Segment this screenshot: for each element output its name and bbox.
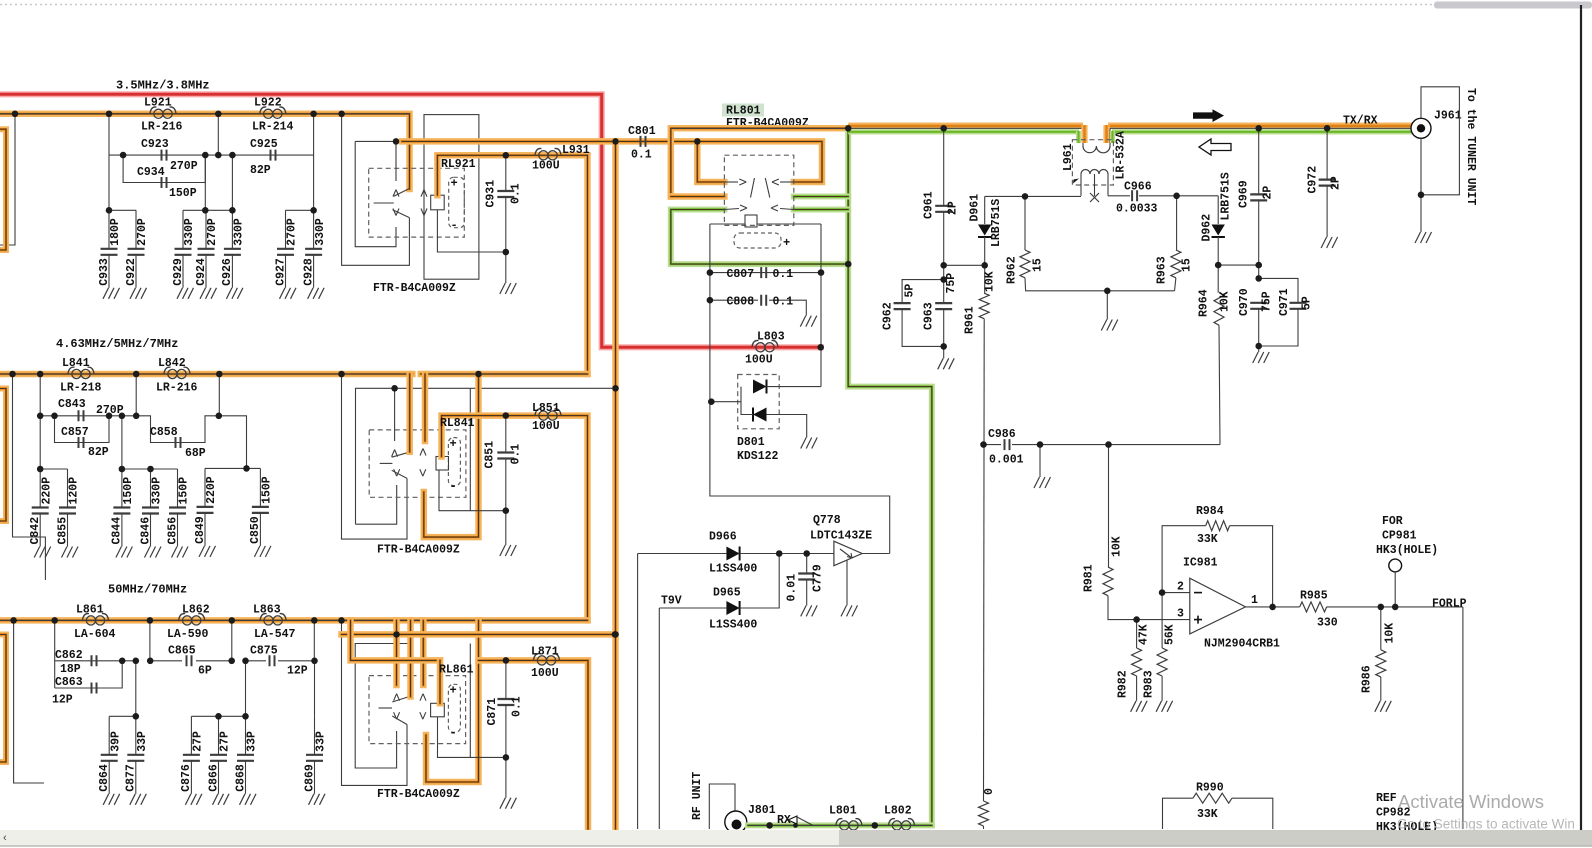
svg-text:0.001: 0.001	[989, 454, 1024, 467]
wire op-amp output	[1246, 606, 1300, 608]
svg-text:C969: C969	[1238, 180, 1251, 208]
svg-text:C986: C986	[988, 428, 1016, 441]
svg-text:C856: C856	[166, 517, 179, 545]
svg-text:FOR: FOR	[1382, 515, 1403, 528]
svg-text:HK3(HOLE): HK3(HOLE)	[1376, 544, 1438, 557]
svg-text:C962: C962	[882, 302, 895, 330]
svg-text:R964: R964	[1198, 289, 1211, 317]
relay RL841 coil square	[436, 457, 449, 471]
svg-text:RL861: RL861	[439, 664, 474, 677]
relay RL801 levers	[751, 178, 755, 198]
svg-text:0.1: 0.1	[773, 268, 794, 281]
capacitor C877 33P	[135, 716, 137, 755]
svg-text:D801: D801	[737, 436, 765, 449]
svg-text:J961: J961	[1434, 110, 1462, 123]
wire RL801 orange loop	[671, 128, 846, 196]
svg-text:C862: C862	[55, 649, 83, 662]
wire J801 bracket	[709, 784, 735, 829]
wire TX/RX pair orange+green left segment	[848, 122, 1083, 128]
svg-text:15: 15	[1032, 258, 1045, 272]
svg-text:FTR-B4CA009Z: FTR-B4CA009Z	[377, 544, 460, 557]
relay RL861 outer box	[342, 620, 408, 785]
svg-text:KDS122: KDS122	[737, 450, 779, 463]
svg-text:L801: L801	[829, 805, 857, 818]
transformer L961 phasing arrow	[1073, 179, 1079, 184]
svg-text:12P: 12P	[287, 665, 308, 678]
svg-text:0: 0	[983, 788, 996, 795]
wire TX/RX pair orange+green right segment to J961	[1108, 122, 1421, 128]
wire D962 to C969 bottom	[1218, 264, 1259, 266]
row3 left edge stubs	[14, 620, 44, 783]
svg-text:L1SS400: L1SS400	[709, 619, 757, 632]
wire row2 feeds	[109, 416, 247, 469]
svg-text:0.0033: 0.0033	[1116, 203, 1158, 216]
wire C925 net	[205, 154, 313, 156]
svg-text:J801: J801	[748, 804, 776, 817]
svg-text:10K: 10K	[1111, 536, 1124, 557]
inductor L931 100U	[535, 148, 561, 159]
svg-text:C928: C928	[302, 258, 315, 286]
connector J961 to tuner unit	[1411, 118, 1431, 138]
relay RL921 contact arrows	[395, 141, 397, 181]
svg-text:L1SS400: L1SS400	[709, 563, 757, 576]
svg-text:10K: 10K	[1384, 623, 1397, 644]
svg-text:100U: 100U	[532, 160, 560, 173]
svg-text:+: +	[451, 177, 458, 191]
svg-text:L961: L961	[1062, 143, 1075, 171]
svg-text:50MHz/70MHz: 50MHz/70MHz	[108, 583, 187, 597]
capacitor C865 6P	[187, 655, 192, 666]
svg-text:NJM2904CRB1: NJM2904CRB1	[1204, 638, 1280, 651]
svg-text:LA-590: LA-590	[167, 628, 209, 641]
inductor L861 LA-604	[83, 614, 109, 625]
svg-text:LR-532A: LR-532A	[1115, 131, 1128, 179]
capacitor C868 33P	[245, 716, 247, 755]
capacitor C871 0.1	[505, 660, 507, 699]
svg-text:56K: 56K	[1164, 624, 1177, 645]
svg-text:D961: D961	[969, 194, 982, 222]
relay RL841 coil dashed inner	[448, 438, 460, 486]
switch RX arrow	[788, 816, 797, 824]
wire green RX line to J801	[748, 822, 932, 828]
svg-text:82P: 82P	[88, 446, 109, 459]
svg-text:0.01: 0.01	[786, 574, 799, 602]
terminal CP981 FOR	[1389, 559, 1402, 572]
capacitor C851 0.1	[505, 416, 507, 453]
svg-text:LA-547: LA-547	[254, 628, 296, 641]
resistor R963 15	[1176, 196, 1178, 250]
wire FORLP down	[1462, 607, 1464, 829]
relay RL861 pole and levers	[379, 707, 393, 709]
svg-text:C934: C934	[137, 166, 165, 179]
relay RL921 outer box	[342, 114, 410, 265]
wire cap cluster bars row3	[109, 715, 136, 717]
relay RL861 coil dashed inner	[448, 684, 460, 732]
svg-text:18P: 18P	[60, 663, 81, 676]
svg-text:C850: C850	[249, 516, 262, 544]
svg-text:C923: C923	[141, 138, 169, 151]
label RL801 highlighted	[722, 104, 764, 117]
wire Q778 connections	[862, 553, 890, 555]
capacitor C922 270P	[135, 210, 137, 249]
wire RL861 drops orange	[393, 620, 400, 685]
svg-text:C961: C961	[923, 191, 936, 219]
row2 left edge stubs	[13, 374, 46, 580]
svg-text:270P: 270P	[206, 218, 219, 246]
svg-text:27P: 27P	[192, 731, 205, 752]
resistor R985 330	[1300, 602, 1327, 612]
svg-text:L921: L921	[144, 97, 172, 110]
capacitor C961 2P	[943, 128, 945, 206]
svg-text:C922: C922	[125, 258, 138, 286]
inductor L863 LA-547	[260, 614, 286, 625]
capacitor C779 0.01	[806, 554, 808, 574]
capacitor C926 330P	[231, 210, 233, 249]
wire J961 bracket	[1421, 87, 1459, 195]
svg-text:C931: C931	[485, 180, 498, 208]
svg-text:C801: C801	[628, 125, 656, 138]
resistors R982 47K R983 56K	[1132, 648, 1142, 676]
resistor R962 15	[1024, 196, 1026, 250]
capacitor C972 2P	[1326, 128, 1328, 179]
svg-text:330P: 330P	[233, 218, 246, 246]
svg-text:LDTC143ZE: LDTC143ZE	[810, 530, 872, 543]
svg-text:C963: C963	[923, 302, 936, 330]
capacitor C869 33P	[314, 716, 316, 755]
wire transformer dip stubs	[1081, 125, 1087, 143]
svg-text:D966: D966	[709, 531, 737, 544]
resistor R990 33K	[1163, 798, 1193, 829]
svg-text:C864: C864	[98, 764, 111, 792]
wire RL841 row elbows orange	[406, 374, 413, 452]
capacitor C866 27P	[218, 716, 220, 755]
svg-text:270P: 270P	[136, 218, 149, 246]
capacitor C855 120P	[67, 469, 69, 508]
junction dots	[12, 111, 19, 118]
svg-text:R982: R982	[1117, 670, 1130, 698]
diode D961 LRB751S	[984, 196, 986, 224]
capacitor C843 270P	[79, 410, 84, 421]
svg-text:2P: 2P	[1262, 186, 1275, 200]
top-right scrollbar stub	[1434, 2, 1592, 9]
svg-text:75P: 75P	[945, 273, 958, 294]
svg-text:150P: 150P	[169, 187, 197, 200]
top dotted border	[0, 4, 1592, 6]
svg-text:C808: C808	[727, 296, 755, 309]
capacitor C876 27P	[190, 716, 192, 755]
svg-text:5P: 5P	[1301, 296, 1314, 310]
svg-text:LR-216: LR-216	[156, 382, 198, 395]
capacitor C924 270P	[205, 210, 207, 249]
inductor L871 100U	[534, 654, 560, 665]
capacitor C849 220P	[204, 468, 206, 507]
svg-text:R961: R961	[964, 306, 977, 334]
svg-text:L862: L862	[182, 604, 210, 617]
relay RL801 coil square	[745, 215, 757, 227]
svg-text:C851: C851	[484, 441, 497, 469]
svg-text:R986: R986	[1361, 665, 1374, 693]
transformer L961 LR-532A dashed box	[1072, 140, 1113, 185]
svg-text:L841: L841	[62, 357, 90, 370]
wire secondary net y196	[985, 195, 1081, 197]
svg-text:RF UNIT: RF UNIT	[691, 772, 704, 820]
svg-text:330: 330	[1317, 617, 1338, 630]
capacitor C846 330P	[150, 469, 152, 508]
capacitor C925 82P	[271, 150, 276, 161]
svg-text:270P: 270P	[286, 218, 299, 246]
svg-text:33P: 33P	[315, 731, 328, 752]
wire cap cluster bars row2	[40, 468, 67, 470]
svg-text:15: 15	[1181, 258, 1194, 272]
capacitor C863 12P loop	[55, 661, 123, 688]
svg-text:C865: C865	[168, 645, 196, 658]
relay RL921 tall rect	[424, 115, 479, 280]
svg-text:C868: C868	[234, 764, 247, 792]
wire RL841 coil bottom to C851	[439, 470, 506, 511]
svg-text:L861: L861	[76, 604, 104, 617]
wire RL861 relay top line orange	[342, 631, 616, 638]
svg-text:C807: C807	[727, 268, 755, 281]
svg-text:R984: R984	[1196, 505, 1224, 518]
svg-text:C875: C875	[250, 645, 278, 658]
svg-text:100U: 100U	[532, 420, 560, 433]
transformer L961 center tap with X	[1094, 174, 1096, 196]
inductor L803 100U on red wire	[752, 340, 778, 351]
svg-text:-: -	[450, 480, 457, 494]
svg-text:C843: C843	[58, 398, 86, 411]
capacitor C934 150P loop	[123, 155, 205, 182]
arrow RX direction outline	[1199, 139, 1231, 155]
svg-text:C842: C842	[29, 517, 42, 545]
svg-text:75P: 75P	[1261, 291, 1274, 312]
relay RL861 inner box and pole line	[355, 644, 412, 769]
svg-text:Q778: Q778	[813, 514, 841, 527]
capacitor C986 0.001	[984, 444, 1002, 446]
svg-text:+: +	[783, 236, 790, 250]
inductor L862 LA-590	[179, 614, 205, 625]
resistor R961 10K	[984, 265, 986, 293]
svg-text:12P: 12P	[52, 694, 73, 707]
relay RL921 coil dashed inner	[449, 177, 465, 227]
svg-text:C855: C855	[56, 517, 69, 545]
svg-text:To the TUNER UNIT: To the TUNER UNIT	[1464, 88, 1477, 205]
svg-text:+: +	[450, 437, 457, 451]
svg-text:REF: REF	[1376, 792, 1397, 805]
svg-text:R963: R963	[1156, 256, 1169, 284]
svg-text:Go to Settings to activate Win: Go to Settings to activate Win	[1397, 817, 1575, 832]
wire red bus 3.5MHz top	[0, 94, 821, 347]
svg-text:330P: 330P	[151, 477, 164, 505]
wire orange row3 bus	[0, 617, 588, 624]
svg-text:100U: 100U	[745, 354, 773, 367]
svg-text:LR-216: LR-216	[141, 121, 183, 134]
wire row3 feeds	[122, 660, 136, 662]
svg-text:LA-604: LA-604	[74, 628, 116, 641]
relay RL841 contact arrows	[394, 388, 396, 441]
relay RL861 coil square	[431, 703, 445, 717]
svg-text:100U: 100U	[531, 667, 559, 680]
svg-text:C846: C846	[139, 517, 152, 545]
svg-text:C925: C925	[250, 138, 278, 151]
wire RL921 coil bottom to C931	[437, 210, 505, 252]
svg-text:RL841: RL841	[440, 417, 475, 430]
ground of R962 R963	[1106, 291, 1108, 320]
svg-text:33P: 33P	[136, 731, 149, 752]
row1 left edge stubs	[0, 114, 15, 245]
relay RL921 pole and levers	[374, 202, 394, 204]
svg-text:150P: 150P	[261, 476, 274, 504]
relay RL861 dashed box	[369, 676, 466, 744]
svg-text:C926: C926	[221, 258, 234, 286]
svg-text:IC981: IC981	[1183, 557, 1218, 570]
svg-text:LRB751S: LRB751S	[990, 199, 1003, 247]
svg-text:68P: 68P	[185, 447, 206, 460]
inductor L841 LR-218	[68, 367, 94, 378]
relay RL841 pole and levers	[380, 462, 393, 464]
svg-text:220P: 220P	[40, 477, 53, 505]
svg-text:+: +	[450, 684, 457, 698]
svg-text:C871: C871	[486, 698, 499, 726]
relay RL841 tall vertical	[469, 388, 471, 510]
svg-text:330P: 330P	[183, 218, 196, 246]
svg-text:C844: C844	[111, 517, 124, 545]
wire RL801 coil connections	[710, 223, 745, 225]
svg-text:C966: C966	[1124, 181, 1152, 194]
svg-text:220P: 220P	[205, 476, 218, 504]
svg-text:330P: 330P	[314, 218, 327, 246]
capacitor C862 18P	[92, 655, 97, 666]
svg-text:1: 1	[1251, 594, 1258, 607]
wire C961 D961 bottom link	[944, 264, 985, 266]
svg-text:LRB751S: LRB751S	[1220, 172, 1233, 220]
relay RL841 dashed box	[369, 430, 466, 497]
svg-text:D965: D965	[713, 587, 741, 600]
wire D966 riser down	[637, 554, 639, 830]
svg-text:RL921: RL921	[441, 158, 476, 171]
wire RL841 coil feed orange L851 net	[442, 416, 588, 621]
diode D801 KDS122 dashed box	[738, 375, 780, 429]
svg-text:0.1: 0.1	[511, 696, 524, 717]
diode D801 lower	[753, 408, 767, 422]
wire orange bus x615 C801 net vertical	[612, 141, 619, 829]
capacitor C801 0.1	[641, 136, 646, 147]
svg-text:Activate Windows: Activate Windows	[1398, 791, 1544, 812]
capacitor C928 330P	[313, 210, 315, 249]
transformer L961 secondary	[1081, 170, 1108, 175]
svg-text:L842: L842	[158, 357, 186, 370]
svg-text:L922: L922	[254, 97, 282, 110]
svg-text:C849: C849	[194, 516, 207, 544]
svg-text:LR-214: LR-214	[252, 121, 294, 134]
wire orange row1 bus	[0, 114, 410, 189]
capacitor C875 12P	[270, 655, 275, 666]
svg-text:2: 2	[1177, 581, 1184, 594]
bottom scrollbar track	[0, 830, 1592, 846]
svg-text:C869: C869	[303, 764, 316, 792]
svg-text:C858: C858	[150, 426, 178, 439]
svg-text:LR-218: LR-218	[60, 382, 102, 395]
inductor L922 LR-214	[260, 107, 286, 118]
wire RL861 coil bottom to C871	[438, 717, 506, 758]
svg-text:RL801: RL801	[726, 105, 761, 118]
svg-text:33K: 33K	[1197, 533, 1218, 546]
wire L871 net orange	[351, 620, 441, 660]
capacitors C962 5P C963 75P	[902, 280, 944, 304]
svg-text:0.1: 0.1	[773, 296, 794, 309]
svg-text:C924: C924	[195, 258, 208, 286]
svg-text:0.1: 0.1	[510, 183, 523, 204]
svg-text:C779: C779	[812, 564, 825, 592]
svg-text:10K: 10K	[984, 271, 997, 292]
wire row1 vertical feeds	[217, 114, 219, 155]
svg-text:R981: R981	[1083, 564, 1096, 592]
inductor L801	[836, 819, 862, 830]
diode D801 upper	[753, 380, 767, 394]
relay RL801 coil dashed inner horizontal	[734, 233, 781, 248]
svg-text:2P: 2P	[947, 201, 960, 215]
svg-text:R962: R962	[1006, 256, 1019, 284]
capacitor C864 39P	[108, 716, 110, 755]
capacitor C970 75P and C971 5P	[1259, 278, 1298, 302]
diode D962 LRB751S	[1217, 196, 1219, 224]
svg-text:L851: L851	[532, 402, 560, 415]
svg-text:150P: 150P	[178, 477, 191, 505]
inductor L802	[889, 819, 915, 830]
svg-text:D962: D962	[1201, 214, 1214, 242]
relay RL801 dashed box	[724, 155, 793, 225]
svg-text:5P: 5P	[904, 284, 917, 298]
arrow TX direction filled	[1193, 109, 1224, 122]
svg-text:33K: 33K	[1197, 808, 1218, 821]
svg-text:R983: R983	[1143, 670, 1156, 698]
capacitor C923 270P	[162, 150, 167, 161]
inductor L851 100U	[535, 409, 561, 420]
relay RL921 inner box	[355, 141, 396, 246]
capacitor C933 180P	[108, 210, 110, 249]
relay RL921 coil square	[431, 195, 445, 210]
resistor R964 10K	[1217, 265, 1219, 293]
svg-text:C927: C927	[274, 258, 287, 286]
svg-text:FTR-B4CA009Z: FTR-B4CA009Z	[373, 282, 456, 295]
svg-text:C972: C972	[1307, 166, 1320, 194]
inductor L842 LR-216	[164, 367, 190, 378]
wire RL841 wrap orange row2	[424, 374, 479, 537]
svg-text:C876: C876	[180, 764, 193, 792]
svg-text:4.63MHz/5MHz/7MHz: 4.63MHz/5MHz/7MHz	[56, 337, 178, 351]
capacitor C869 33P	[314, 661, 316, 717]
svg-text:27P: 27P	[219, 731, 232, 752]
svg-text:0.1: 0.1	[510, 444, 523, 465]
wire T9V riser down	[658, 608, 660, 829]
svg-text:-: -	[450, 726, 457, 740]
wire cap cluster bars row1	[109, 209, 136, 211]
svg-text:39P: 39P	[109, 731, 122, 752]
svg-text:0.1: 0.1	[631, 149, 652, 162]
svg-text:C863: C863	[55, 676, 83, 689]
capacitor C929 330P	[182, 210, 184, 249]
capacitor C857 82P loop	[55, 416, 110, 443]
capacitor C856 150P	[177, 469, 179, 508]
svg-text:C866: C866	[207, 764, 220, 792]
svg-text:C857: C857	[61, 426, 89, 439]
capacitor C850 150P	[259, 468, 261, 507]
connector J801	[725, 811, 747, 833]
svg-text:T9V: T9V	[661, 595, 682, 608]
bottom scrollbar thumb	[839, 830, 1592, 846]
svg-text:L803: L803	[757, 331, 785, 344]
resistor R981 10K	[1108, 445, 1110, 567]
svg-text:L931: L931	[562, 144, 590, 157]
